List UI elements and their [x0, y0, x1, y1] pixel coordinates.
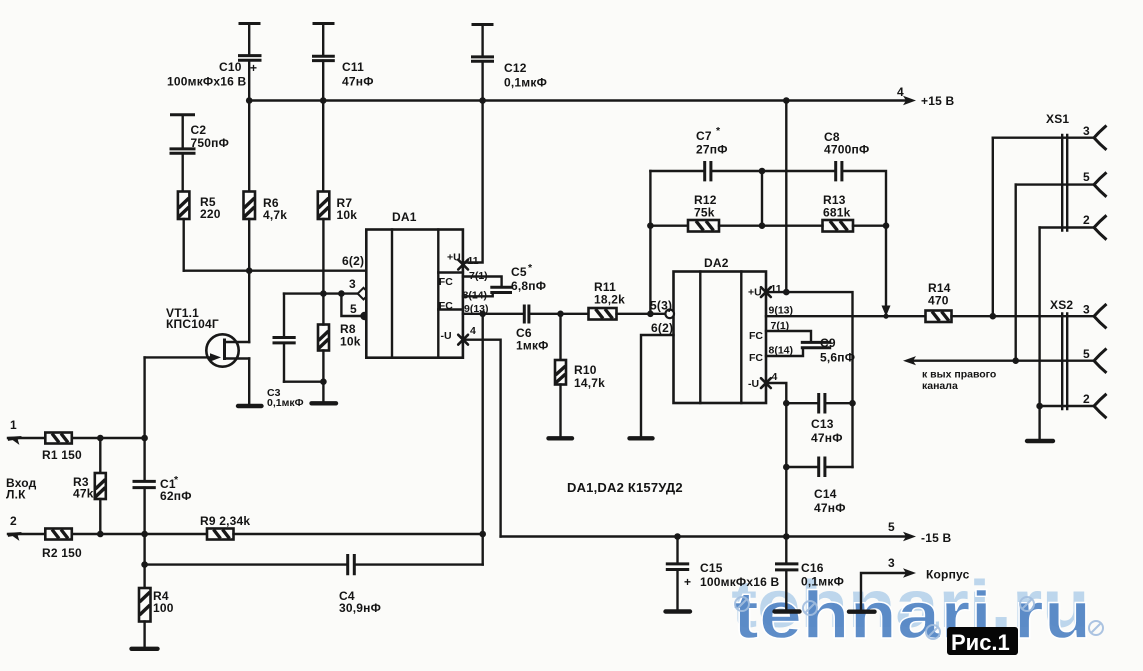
resistor R1 150 — [42, 433, 82, 463]
ground for R4 — [132, 647, 158, 651]
ground for XS pin2 chain — [1027, 439, 1053, 443]
svg-text:14,7k: 14,7k — [574, 376, 605, 390]
wire DA2 pin 4 -U down — [766, 383, 786, 537]
svg-text:62пФ: 62пФ — [160, 489, 192, 503]
svg-text:0,1мкФ: 0,1мкФ — [504, 76, 547, 90]
capacitor C9 5,6пФ between DA2 FC pins — [766, 331, 855, 365]
svg-text:2: 2 — [10, 514, 17, 528]
node dot R13/C8 right — [883, 222, 890, 229]
svg-text:6,8пФ: 6,8пФ — [511, 279, 546, 293]
svg-text:10k: 10k — [337, 208, 358, 222]
resistor R6 4,7k — [244, 192, 288, 271]
connector contact XS1.3 — [1094, 126, 1107, 150]
node dot pins 3-5 link — [338, 290, 345, 297]
svg-text:1мкФ: 1мкФ — [516, 339, 549, 353]
resistor R10 14,7k — [555, 314, 605, 436]
node dot feedback/R9 — [479, 531, 486, 538]
node dots C13 line — [783, 400, 790, 407]
wire XS2 contact 2 — [1040, 405, 1094, 407]
connector body bars XS2 — [1062, 314, 1067, 410]
terminal arrow -15V — [903, 532, 916, 542]
svg-text:DA1: DA1 — [392, 210, 417, 224]
connector contact XS1.5 — [1094, 172, 1107, 196]
svg-text:5: 5 — [888, 520, 895, 534]
svg-text:3: 3 — [1083, 303, 1090, 317]
svg-text:8(14): 8(14) — [769, 345, 794, 357]
node dot R1/R3 — [97, 435, 104, 442]
svg-text:4: 4 — [897, 85, 904, 99]
wire C3 bottom to R8 bottom — [284, 381, 323, 383]
svg-text:FC: FC — [439, 276, 453, 288]
wire left leg of DA2 feedback network — [649, 171, 651, 314]
ground (top bar) for C11 — [313, 24, 335, 57]
X mark DA2 pin 11 — [761, 287, 771, 297]
capacitor C10 100мкФх16В electrolytic — [167, 56, 262, 192]
svg-text:681k: 681k — [823, 206, 851, 220]
node dot R4/C4 branch — [141, 561, 148, 568]
ground for DA2 pin 6(2) — [630, 436, 653, 440]
svg-text:FC: FC — [439, 300, 453, 312]
node dot output/feedback — [479, 311, 486, 318]
svg-text:4: 4 — [470, 325, 476, 337]
ground (top bar) for C2 — [170, 115, 195, 149]
watermark tehnari.ru — [731, 567, 1091, 653]
svg-text:Рис.1: Рис.1 — [951, 630, 1010, 655]
wire mid leg C7-R12 — [761, 171, 763, 226]
ground for R10 — [549, 436, 573, 440]
node dot C7/C8 mid — [759, 168, 766, 175]
node dot C14 left — [783, 464, 790, 471]
svg-text:0,1мкФ: 0,1мкФ — [267, 397, 304, 409]
capacitor C12 0,1мкФ — [471, 57, 547, 101]
svg-text:0,1мкФ: 0,1мкФ — [801, 575, 844, 589]
node dot output/feedback arrow junction — [883, 314, 888, 319]
svg-text:1: 1 — [10, 418, 17, 432]
ground for VT1 source — [238, 404, 262, 408]
svg-text:6(2): 6(2) — [651, 321, 673, 335]
svg-text:3: 3 — [888, 556, 895, 570]
svg-text:+U: +U — [748, 287, 762, 299]
node dot XS2.2 leg — [1036, 403, 1043, 410]
Рис.1 caption box — [947, 627, 1018, 655]
pin 5(3) open circle on DA2 edge — [665, 310, 674, 319]
svg-text:+: + — [684, 575, 691, 589]
svg-text:2: 2 — [1083, 392, 1090, 406]
terminal input 1 — [7, 418, 45, 445]
node dot R8 bottom — [320, 378, 327, 385]
svg-text:47k: 47k — [73, 487, 94, 501]
svg-text:-U: -U — [441, 330, 452, 342]
X mark DA2 pin 4 — [761, 378, 771, 388]
wire XS1 contact 5 — [1016, 183, 1094, 185]
svg-text:C2: C2 — [191, 123, 207, 137]
ground (top bar) for C10 — [239, 24, 261, 56]
wire DA1 pin4 -U down to -15V rail — [463, 340, 501, 537]
wire feedback vertical C4/R9 to DA1 output — [482, 314, 484, 565]
capacitor C14 47нФ — [786, 457, 852, 516]
svg-text:FC: FC — [749, 352, 763, 364]
svg-text:30,9нФ: 30,9нФ — [339, 601, 381, 615]
svg-text:к вых правого: к вых правого — [922, 369, 996, 381]
svg-text:R1 150: R1 150 — [42, 448, 82, 462]
svg-text:КПС104Г: КПС104Г — [166, 317, 219, 331]
connector contact XS2.3 — [1094, 304, 1107, 328]
node dot R12/C7 left leg on input line — [647, 311, 654, 318]
pin 5 dot on DA1 edge — [360, 312, 368, 320]
svg-text:47нФ: 47нФ — [814, 501, 846, 515]
node dot rail/DA2 -U/C16 — [783, 533, 790, 540]
wire DA2 pin 6(2) to ground — [641, 335, 674, 436]
ground (top bar) for C12 — [472, 25, 494, 57]
resistor R8 10k — [318, 294, 361, 401]
wire XS2 contact 5 with arrow to right channel — [908, 360, 1094, 362]
wire R5/R6 bottom to DA1 pin 6(2) — [184, 270, 367, 272]
node dot rail/C10/R6 — [246, 97, 253, 104]
svg-text:C12: C12 — [504, 61, 527, 75]
svg-text:C5: C5 — [511, 265, 527, 279]
node dot C6/R10 — [557, 311, 564, 318]
resistor R13 681k — [762, 193, 886, 232]
wire R9 to DA1 output feedback — [234, 533, 483, 535]
svg-text:18,2k: 18,2k — [594, 293, 625, 307]
svg-text:4700пФ: 4700пФ — [824, 143, 869, 157]
svg-text:6(2): 6(2) — [342, 254, 364, 268]
capacitor C15 100мкФх16В electrolytic — [666, 537, 780, 610]
svg-text:C16: C16 — [801, 561, 824, 575]
connector contact XS2.5 — [1094, 349, 1107, 373]
wire R2 to R9 — [72, 533, 207, 535]
svg-text:Корпус: Корпус — [926, 568, 970, 582]
capacitor C11 47нФ — [312, 56, 374, 191]
wire XS1 contact 2 — [1040, 226, 1094, 228]
node dot pin11 feed — [783, 289, 790, 296]
ground for C3/R8 — [312, 401, 337, 405]
capacitor C13 47нФ — [786, 393, 852, 445]
svg-text:R10: R10 — [574, 363, 597, 377]
svg-text:2: 2 — [1083, 213, 1090, 227]
pin 3 diamond on DA1 edge — [358, 288, 370, 300]
svg-text:R2 150: R2 150 — [42, 546, 82, 560]
svg-text:75k: 75k — [694, 206, 715, 220]
connector contact XS1.2 — [1094, 215, 1107, 239]
capacitor C3 0,1мкФ — [267, 294, 304, 409]
svg-text:100мкФх16 В: 100мкФх16 В — [167, 75, 247, 89]
wire right leg down to DA2 output with arrow — [885, 226, 887, 306]
wire XS1 pin3 leg down to output line — [992, 138, 994, 317]
node dot rail/C11/R7 — [320, 97, 327, 104]
wire XS1 pin5 leg down — [1015, 185, 1017, 361]
svg-text:R9 2,34k: R9 2,34k — [200, 514, 250, 528]
resistor R11 18,2k — [589, 280, 626, 320]
wire DA2 output 9(13) to R14 — [766, 315, 926, 317]
capacitor C7* 27пФ — [650, 125, 762, 181]
svg-text:FC: FC — [749, 330, 763, 342]
transistor VT1.1 КПС104Г — [145, 271, 250, 404]
ground for C15 — [666, 609, 691, 613]
resistor R5 220 — [178, 192, 221, 271]
capacitor C4 30,9нФ — [145, 554, 483, 615]
node dot rail/C15 — [674, 533, 681, 540]
svg-text:5(3): 5(3) — [650, 299, 672, 313]
resistor R2 150 — [42, 529, 82, 561]
svg-text:4: 4 — [772, 371, 778, 383]
capacitor C1* 62пФ — [133, 438, 192, 534]
node dot C1/R4 junction — [141, 531, 148, 538]
capacitor C6 1мкФ — [516, 305, 589, 353]
terminal arrow Корпус — [903, 568, 916, 578]
svg-text:-15 В: -15 В — [921, 531, 951, 545]
svg-text:5: 5 — [1083, 170, 1090, 184]
wire +15 feed to DA2 pin 11 and to C13/C14 right leg — [768, 101, 853, 468]
terminal arrow +15V — [903, 96, 916, 106]
ground for Корпус — [849, 610, 875, 614]
watermark circle marks — [735, 597, 1103, 639]
svg-text:C14: C14 — [814, 487, 837, 501]
wire R11 to DA2 pin 5(3) — [617, 313, 671, 315]
svg-text:100мкФх16 В: 100мкФх16 В — [700, 575, 780, 589]
svg-text:27пФ: 27пФ — [696, 143, 728, 157]
svg-text:канала: канала — [922, 380, 958, 392]
svg-text:5: 5 — [1083, 347, 1090, 361]
svg-text:3: 3 — [349, 277, 356, 291]
connector body bars XS1 — [1062, 135, 1067, 231]
svg-text:DA1,DA2 К157УД2: DA1,DA2 К157УД2 — [567, 480, 683, 495]
node dot R8 top on pin3 line — [320, 290, 327, 297]
svg-text:+: + — [250, 61, 257, 75]
svg-text:C9: C9 — [820, 336, 836, 350]
node dot R12/R13 mid — [759, 222, 766, 229]
svg-text:750пФ: 750пФ — [191, 136, 230, 150]
resistor R7 10k — [318, 192, 357, 294]
op-amp DA2 box — [674, 256, 794, 403]
svg-text:C15: C15 — [700, 561, 723, 575]
wire -15V rail — [501, 535, 910, 537]
resistor R12 75k — [650, 193, 762, 232]
terminal input 2 — [7, 514, 45, 541]
svg-text:470: 470 — [928, 294, 949, 308]
svg-text:5: 5 — [350, 302, 357, 316]
svg-text:47нФ: 47нФ — [811, 431, 843, 445]
node dot rail/DA2 pin11 feed — [783, 97, 790, 104]
node dot R2/R3 — [97, 531, 104, 538]
svg-text:C10: C10 — [219, 60, 242, 74]
wire Корпус terminal — [861, 573, 911, 610]
capacitor C5* 6,8пФ between FC pins — [463, 262, 546, 296]
wire XS1 pin2 leg down to ground — [1038, 228, 1040, 440]
wire +15V rail — [249, 99, 910, 101]
ground for C16 — [775, 609, 800, 613]
wire gate node vertical to input — [143, 357, 145, 438]
node dot rail/C12/DA1 pin11 — [479, 97, 486, 104]
node dot R12 left — [647, 222, 654, 229]
wire R1 to C1 node — [72, 437, 145, 439]
X mark DA1 pin 11 — [458, 260, 468, 270]
wire DA1 +U pin11 to +15 rail — [465, 101, 483, 263]
svg-text:XS1: XS1 — [1046, 112, 1069, 126]
wire link pin3 to pin5 — [341, 294, 362, 316]
node dot R1/C1/gate — [141, 435, 148, 442]
connector contact XS2.2 — [1094, 394, 1107, 418]
svg-text:C13: C13 — [811, 417, 834, 431]
capacitor C16 0,1мкФ — [775, 537, 844, 610]
node dot wire/R6/VT1 drain — [246, 267, 253, 274]
resistor R14 470 — [926, 281, 1095, 322]
svg-text:9(13): 9(13) — [769, 305, 794, 317]
svg-text:220: 220 — [200, 207, 221, 221]
svg-text:10k: 10k — [340, 335, 361, 349]
svg-text:5,6пФ: 5,6пФ — [820, 351, 855, 365]
op-amp DA1 box — [366, 210, 488, 358]
node dot R14/XS1 leg — [990, 313, 997, 320]
svg-text:+15 В: +15 В — [921, 94, 954, 108]
node dot XS1.5 leg joins — [1012, 357, 1019, 364]
svg-text:-U: -U — [748, 378, 759, 390]
svg-text:47нФ: 47нФ — [342, 75, 374, 89]
capacitor C2 750пФ — [170, 123, 230, 192]
svg-text:C7: C7 — [696, 129, 712, 143]
wire DA1 output 9(13) line — [463, 313, 523, 315]
svg-text:C11: C11 — [342, 60, 364, 74]
svg-text:4,7k: 4,7k — [263, 208, 287, 222]
X mark DA1 pin 4 — [458, 335, 468, 345]
svg-text:100: 100 — [153, 601, 174, 615]
svg-text:XS2: XS2 — [1050, 298, 1073, 312]
svg-text:11: 11 — [468, 255, 479, 267]
svg-text:Л.К: Л.К — [6, 488, 26, 502]
svg-text:3: 3 — [1083, 124, 1090, 138]
svg-text:DA2: DA2 — [704, 256, 729, 270]
resistor R9 2,34k — [200, 514, 250, 540]
resistor R3 47k — [73, 438, 106, 534]
wire DA1 pin3 node line — [284, 292, 359, 294]
resistor R4 100 — [139, 534, 174, 647]
wire XS1 contact 3 — [993, 136, 1094, 138]
capacitor C8 4700пФ — [762, 130, 886, 226]
